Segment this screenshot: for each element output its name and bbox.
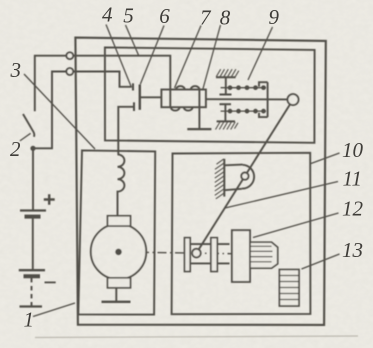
- pointer line 8: [203, 25, 221, 91]
- switch 2 blade: [23, 114, 34, 137]
- shaft axis dash-dot line: [123, 252, 278, 254]
- relay moving contact bar: [139, 85, 141, 110]
- nut bracket lower: [259, 113, 268, 117]
- solenoid ground stem: [198, 107, 200, 129]
- pointer line 4: [106, 25, 131, 87]
- screw shaft axis line: [206, 98, 288, 100]
- battery end plate: [20, 305, 43, 307]
- plus sign: [44, 194, 55, 205]
- solenoid winding bottom loops: [171, 107, 193, 110]
- drive flange 1: [185, 238, 191, 272]
- top inner box (relay/drive unit): [105, 47, 315, 142]
- drive flange 2: [211, 238, 217, 272]
- nut bracket vertical: [267, 82, 269, 117]
- solenoid ground bar: [187, 128, 211, 130]
- terminal circle (bottom): [66, 68, 73, 75]
- battery cell 1 long plate: [20, 209, 46, 211]
- screw upper thread line: [221, 87, 266, 89]
- motor shaft center dot: [115, 249, 122, 256]
- lower support stem: [224, 104, 226, 121]
- dashed wire below battery: [31, 278, 33, 306]
- lever top joint circle: [288, 94, 299, 105]
- relay lower contact wire down to motor coil: [118, 107, 134, 155]
- pointer line 9: [248, 27, 273, 80]
- battery cell 2 long plate: [19, 269, 45, 271]
- upper support top bar: [216, 76, 236, 78]
- lower support bottom bar: [217, 120, 235, 122]
- motor top brush block: [108, 216, 131, 226]
- pinion gear body: [250, 242, 278, 268]
- bottom-right inner box (drive mechanism): [172, 153, 311, 314]
- pivot triangle bottom link: [224, 189, 242, 190]
- pointer line 2: [20, 133, 31, 141]
- faint page scan line: [35, 336, 358, 338]
- wire: junction down to battery: [32, 148, 34, 210]
- solenoid internal lead left: [169, 90, 171, 108]
- upper support bottom bar: [220, 94, 232, 96]
- pointer line 5: [126, 25, 140, 56]
- motor field coil: [118, 154, 125, 215]
- motor inner box: [78, 150, 155, 314]
- relay upper fixed contact tick: [132, 83, 134, 90]
- solenoid winding top loops 7: [176, 86, 199, 89]
- pivot triangle top link: [224, 164, 242, 167]
- screw upper thread dots: [228, 85, 266, 90]
- battery cell 1 short plate: [25, 215, 41, 219]
- pivot wall 10: [223, 159, 225, 197]
- wire between cells: [32, 218, 34, 270]
- fork joint circle on sleeve: [192, 249, 201, 258]
- pivot joint circle: [241, 173, 248, 180]
- nut bracket upper: [259, 82, 268, 86]
- relay lower fixed contact tick: [133, 102, 135, 111]
- lower support hatching: [216, 122, 239, 130]
- rack teeth lines: [279, 276, 299, 300]
- pinion teeth lines: [250, 246, 273, 261]
- pointer line 10: [311, 153, 340, 164]
- wire: junction->terminal2->upper contact: [33, 72, 132, 149]
- solenoid internal lead right: [198, 90, 200, 108]
- drive sleeve top/bottom lines: [190, 244, 229, 263]
- minus sign: [45, 281, 56, 283]
- motor armature circle: [91, 224, 146, 279]
- engagement lever (from joint to fork): [196, 100, 293, 254]
- junction dot: [30, 146, 35, 151]
- pointer line 12: [253, 213, 339, 238]
- pointer line 7: [175, 26, 202, 89]
- pointer line 6: [140, 26, 164, 85]
- wire: contact bar to solenoid: [141, 96, 162, 98]
- ring gear rack 13: [279, 270, 299, 307]
- pivot wall hatching: [215, 159, 224, 199]
- pivot boss arc: [242, 165, 254, 189]
- pointer line 3: [24, 74, 95, 149]
- upper fixed support: hatching: [216, 69, 239, 77]
- terminal circle (top): [66, 52, 73, 59]
- motor ground bar: [102, 301, 131, 303]
- solenoid core box 8: [161, 90, 206, 108]
- pointer line 11: [225, 182, 338, 209]
- wire: battery->switch->terminal1->into coil box: [35, 56, 171, 112]
- battery cell 2 short plate: [24, 274, 41, 278]
- motor bottom brush block: [108, 278, 131, 288]
- pointer line 13: [302, 254, 340, 269]
- upper support stem: [225, 77, 227, 94]
- screw lower thread line: [221, 110, 266, 112]
- motor ground stem: [115, 288, 117, 302]
- screw lower thread dots: [228, 109, 266, 114]
- lower fixed support: top bar: [220, 103, 232, 105]
- outer housing box (starter body): [75, 38, 325, 325]
- overrunning clutch block 12: [232, 230, 250, 282]
- pointer line 1: [33, 303, 75, 317]
